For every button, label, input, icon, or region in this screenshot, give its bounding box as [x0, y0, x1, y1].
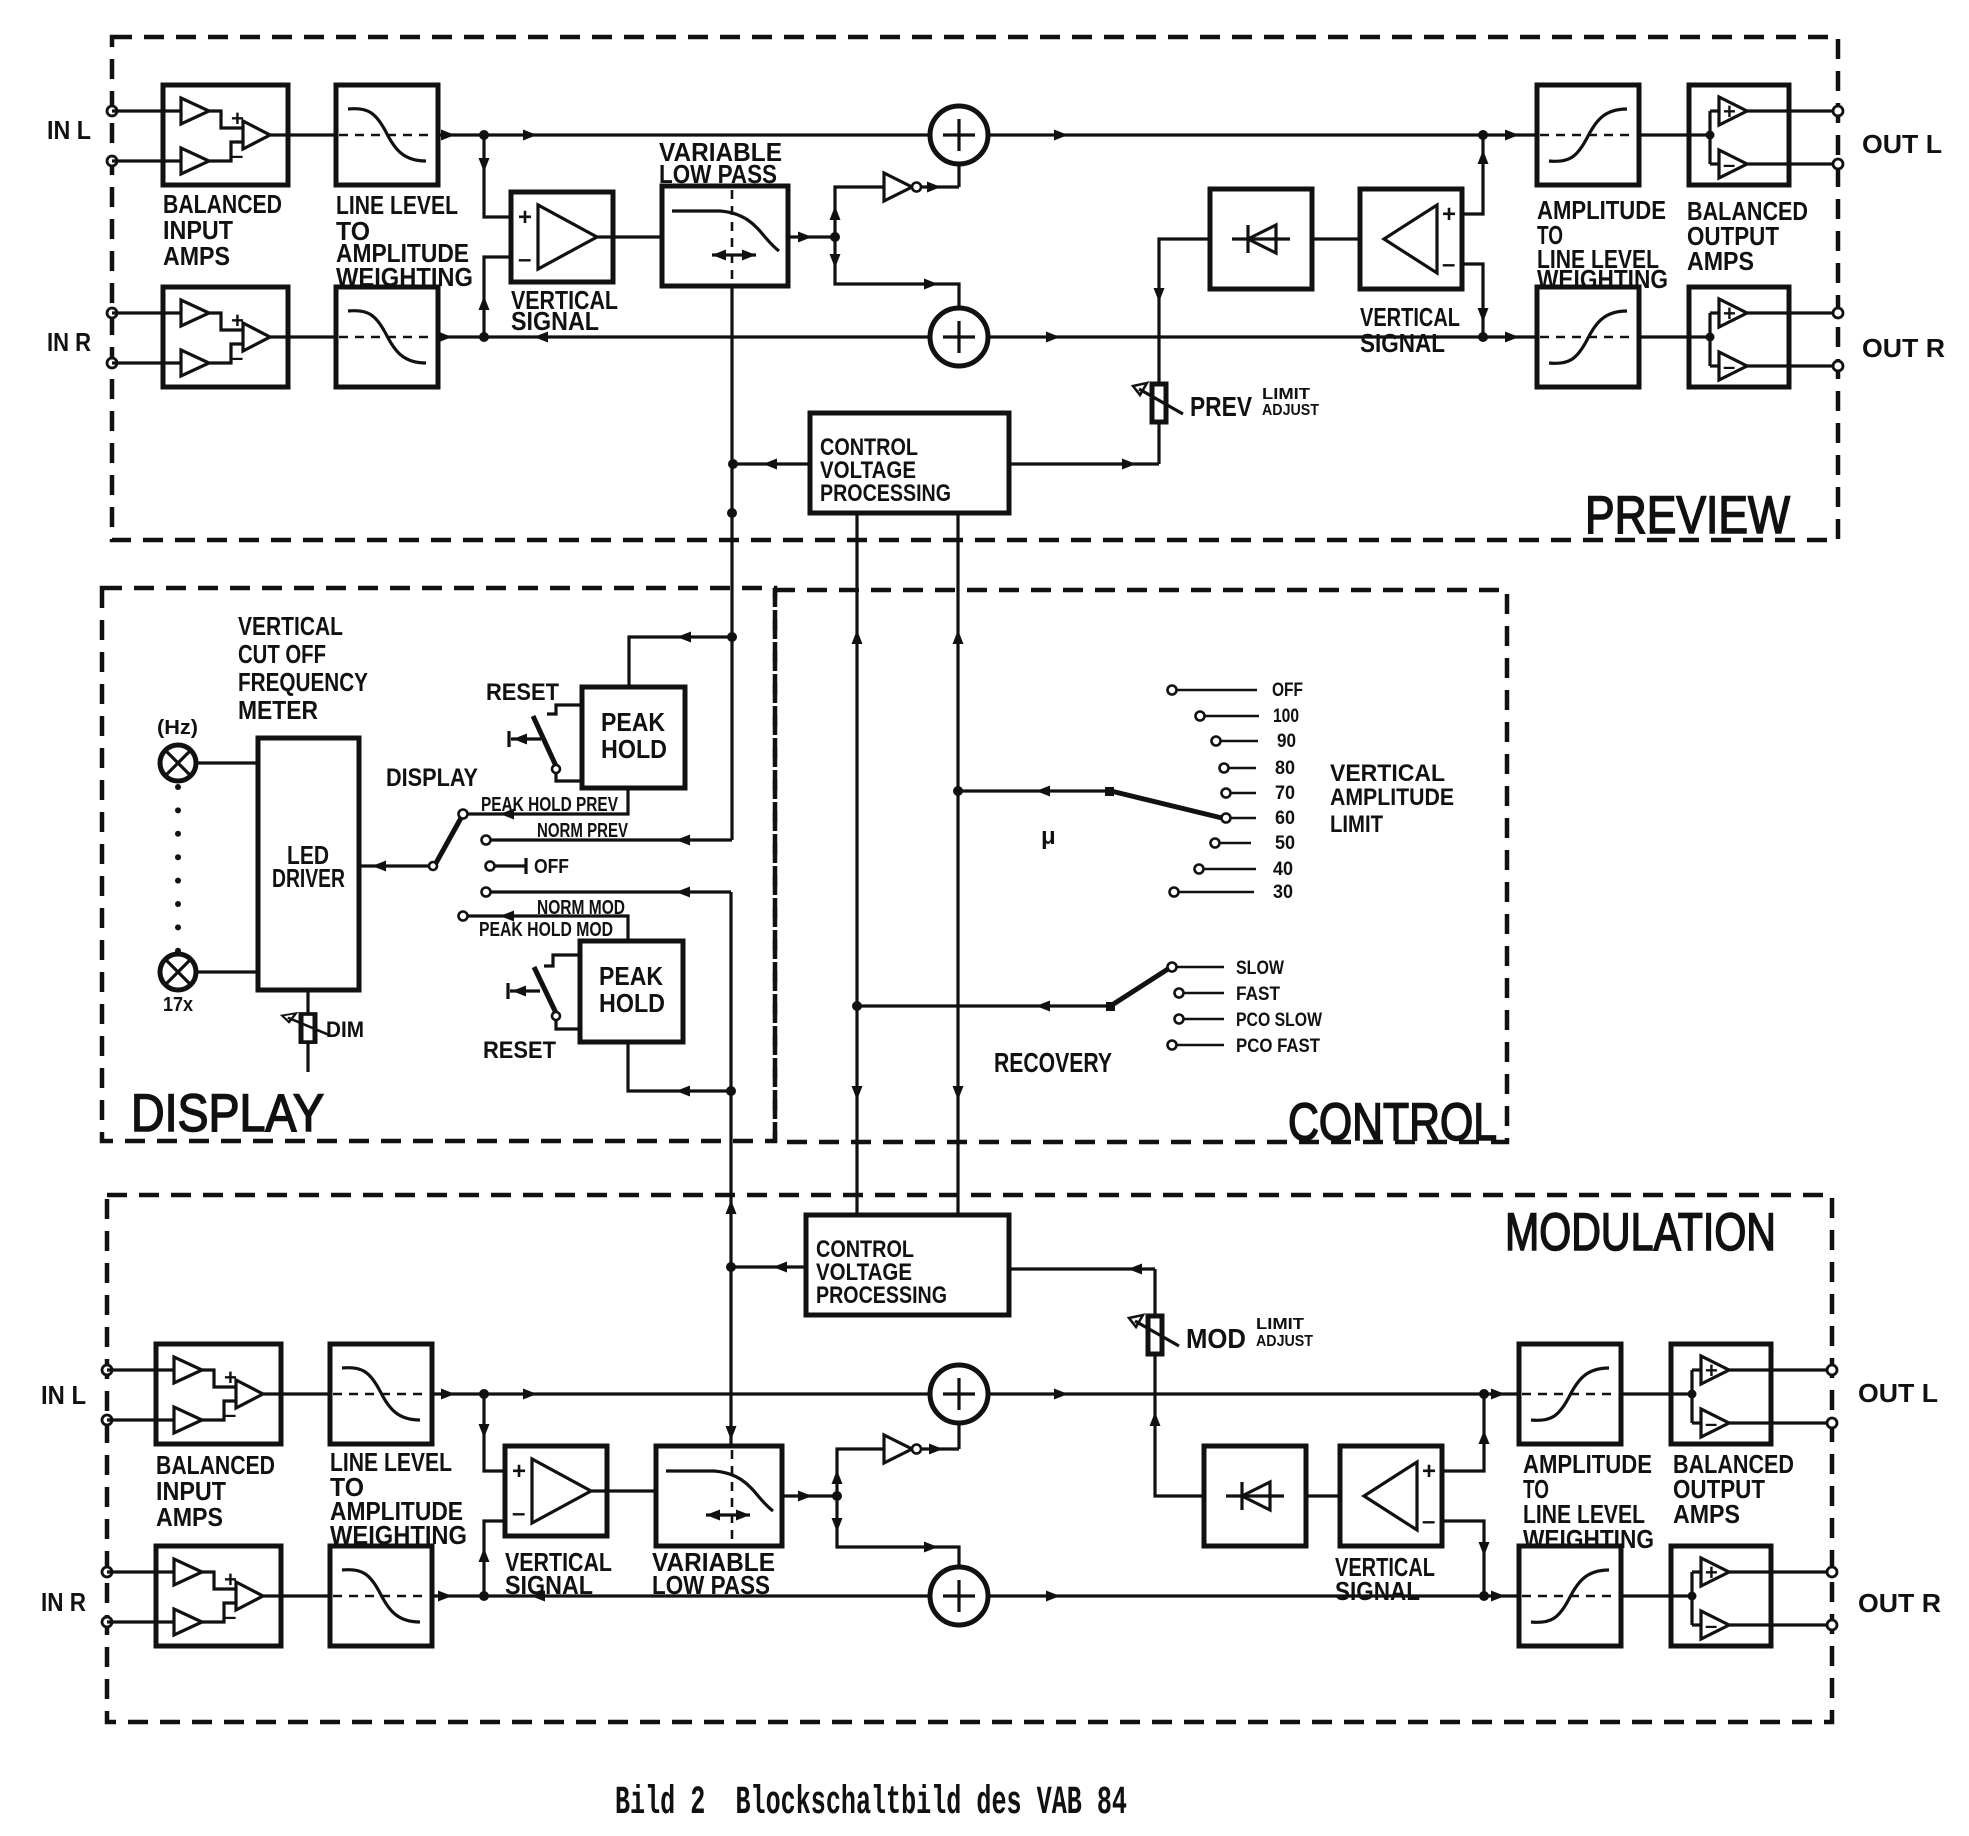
- svg-text:SIGNAL: SIGNAL: [1335, 1576, 1420, 1606]
- svg-text:AMPLITUDE: AMPLITUDE: [1330, 784, 1454, 811]
- svg-text:FAST: FAST: [1236, 984, 1280, 1005]
- svg-text:RESET: RESET: [483, 1037, 556, 1064]
- svg-text:IN R: IN R: [47, 327, 91, 357]
- svg-text:HOLD: HOLD: [601, 734, 667, 764]
- svg-text:LIMIT: LIMIT: [1256, 1316, 1304, 1333]
- svg-text:METER: METER: [238, 695, 318, 725]
- svg-text:HOLD: HOLD: [599, 988, 665, 1018]
- svg-text:100: 100: [1273, 706, 1299, 727]
- svg-text:PEAK: PEAK: [601, 707, 665, 737]
- svg-text:DISPLAY: DISPLAY: [386, 764, 478, 792]
- svg-text:PREV: PREV: [1190, 391, 1252, 422]
- svg-text:OUT R: OUT R: [1858, 1588, 1941, 1618]
- svg-text:ADJUST: ADJUST: [1262, 402, 1319, 419]
- svg-text:AMPS: AMPS: [1673, 1499, 1740, 1529]
- svg-text:IN R: IN R: [41, 1587, 86, 1617]
- svg-text:80: 80: [1275, 758, 1295, 779]
- svg-text:μ: μ: [1041, 823, 1056, 850]
- svg-text:IN L: IN L: [41, 1380, 86, 1410]
- svg-text:40: 40: [1273, 859, 1293, 880]
- svg-text:RESET: RESET: [486, 679, 559, 706]
- svg-text:MOD: MOD: [1186, 1323, 1246, 1354]
- svg-text:DRIVER: DRIVER: [272, 863, 345, 893]
- svg-text:DISPLAY: DISPLAY: [131, 1084, 324, 1143]
- svg-text:FREQUENCY: FREQUENCY: [238, 667, 368, 697]
- svg-text:PREVIEW: PREVIEW: [1585, 486, 1790, 545]
- svg-text:PROCESSING: PROCESSING: [816, 1282, 947, 1309]
- svg-text:Bild 2 Blockschaltbild des VA: Bild 2 Blockschaltbild des VAB 84: [615, 1781, 1127, 1826]
- svg-text:(Hz): (Hz): [157, 717, 198, 739]
- svg-text:LIMIT: LIMIT: [1330, 811, 1383, 838]
- svg-text:WEIGHTING: WEIGHTING: [330, 1520, 467, 1550]
- svg-text:SLOW: SLOW: [1236, 958, 1284, 979]
- svg-text:30: 30: [1273, 882, 1293, 903]
- svg-text:IN L: IN L: [47, 115, 91, 145]
- svg-text:WEIGHTING: WEIGHTING: [1537, 264, 1668, 294]
- svg-text:SIGNAL: SIGNAL: [505, 1570, 593, 1600]
- svg-text:50: 50: [1275, 833, 1295, 854]
- svg-text:LOW PASS: LOW PASS: [652, 1570, 770, 1600]
- svg-text:OUT L: OUT L: [1858, 1378, 1938, 1408]
- svg-text:LIMIT: LIMIT: [1262, 386, 1310, 403]
- svg-text:CONTROL: CONTROL: [1288, 1093, 1497, 1152]
- svg-text:SIGNAL: SIGNAL: [1360, 328, 1445, 358]
- svg-text:ADJUST: ADJUST: [1256, 1333, 1313, 1350]
- svg-text:AMPS: AMPS: [156, 1502, 223, 1532]
- svg-text:90: 90: [1277, 731, 1296, 752]
- svg-text:17x: 17x: [163, 994, 193, 1016]
- svg-text:RECOVERY: RECOVERY: [994, 1047, 1112, 1078]
- svg-text:AMPS: AMPS: [163, 241, 230, 271]
- svg-text:OUT L: OUT L: [1862, 129, 1942, 159]
- svg-text:DIM: DIM: [326, 1017, 364, 1042]
- svg-text:SIGNAL: SIGNAL: [511, 306, 599, 336]
- svg-text:PCO SLOW: PCO SLOW: [1236, 1010, 1322, 1031]
- svg-text:60: 60: [1275, 808, 1295, 829]
- svg-text:OUT R: OUT R: [1862, 333, 1945, 363]
- svg-text:WEIGHTING: WEIGHTING: [336, 262, 473, 292]
- svg-text:OFF: OFF: [1272, 680, 1303, 701]
- svg-text:PEAK HOLD PREV: PEAK HOLD PREV: [481, 794, 619, 816]
- svg-text:CUT OFF: CUT OFF: [238, 639, 326, 669]
- svg-text:NORM PREV: NORM PREV: [537, 820, 628, 842]
- svg-text:LOW PASS: LOW PASS: [659, 159, 777, 189]
- svg-text:WEIGHTING: WEIGHTING: [1523, 1524, 1654, 1554]
- svg-text:AMPS: AMPS: [1687, 246, 1754, 276]
- svg-text:PROCESSING: PROCESSING: [820, 480, 951, 507]
- svg-text:70: 70: [1275, 783, 1295, 804]
- svg-text:VERTICAL: VERTICAL: [1330, 760, 1445, 787]
- svg-text:PEAK: PEAK: [599, 961, 663, 991]
- svg-text:PEAK HOLD MOD: PEAK HOLD MOD: [479, 919, 613, 941]
- svg-text:OFF: OFF: [534, 856, 569, 878]
- svg-text:PCO FAST: PCO FAST: [1236, 1036, 1320, 1057]
- svg-text:VERTICAL: VERTICAL: [238, 611, 343, 641]
- svg-text:MODULATION: MODULATION: [1505, 1203, 1776, 1262]
